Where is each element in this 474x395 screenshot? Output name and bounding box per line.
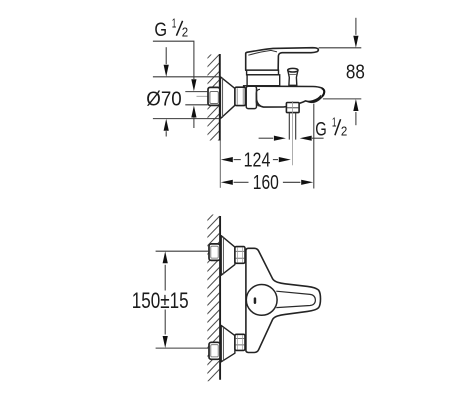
svg-text:G: G (315, 119, 327, 140)
svg-text:1: 1 (172, 15, 177, 30)
svg-text:88: 88 (346, 61, 365, 84)
svg-text:1: 1 (332, 115, 337, 130)
svg-text:Ø70: Ø70 (146, 88, 181, 111)
svg-text:2: 2 (341, 123, 347, 138)
svg-text:150±15: 150±15 (132, 288, 189, 313)
svg-text:124: 124 (244, 148, 271, 171)
svg-text:160: 160 (253, 171, 279, 194)
svg-text:2: 2 (182, 24, 188, 39)
svg-text:G: G (154, 20, 167, 41)
